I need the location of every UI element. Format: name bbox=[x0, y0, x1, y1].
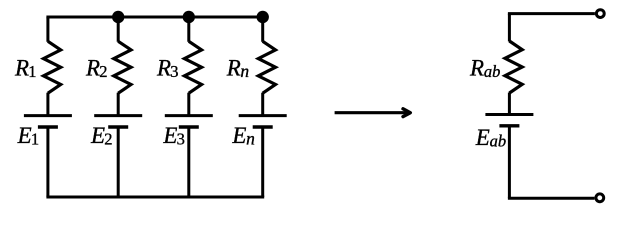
wire branch 4 resistor to battery bbox=[261, 93, 264, 116]
wire branch 1 bottom vertical bbox=[46, 127, 49, 197]
resistor R1 bbox=[44, 41, 61, 93]
wire bottom rail (node b bus) bbox=[46, 196, 264, 199]
node junction dot 4 bbox=[257, 11, 269, 23]
wire equivalent branch top vertical bbox=[508, 14, 511, 42]
battery E3 long plate (+) bbox=[165, 114, 213, 117]
battery E1 short plate (-) bbox=[38, 125, 58, 128]
wire equivalent top lead bbox=[508, 12, 595, 15]
wire branch 3 resistor to battery bbox=[187, 93, 190, 116]
svg-text:E1: E1 bbox=[17, 123, 40, 149]
resistor R2 bbox=[114, 41, 131, 93]
terminal a (open circle) bbox=[596, 10, 604, 18]
wire branch 1 resistor to battery bbox=[46, 93, 49, 116]
svg-text:Rn: Rn bbox=[226, 55, 250, 81]
wire equivalent resistor to battery bbox=[508, 93, 511, 115]
wire branch 1 top vertical bbox=[46, 17, 49, 42]
battery E2 short plate (-) bbox=[108, 125, 128, 128]
battery En short plate (-) bbox=[253, 125, 273, 128]
svg-text:En: En bbox=[231, 123, 255, 149]
battery E2 long plate (+) bbox=[94, 114, 142, 117]
battery Eab short plate (-) bbox=[499, 124, 519, 127]
node junction dot 2 bbox=[112, 11, 124, 23]
wire branch 2 resistor to battery bbox=[117, 93, 120, 116]
svg-text:R3: R3 bbox=[156, 55, 179, 81]
wire top rail (node a bus) bbox=[46, 16, 262, 19]
wire equivalent branch bottom vertical bbox=[508, 126, 511, 199]
wire branch 3 top vertical bbox=[187, 17, 190, 42]
battery E1 long plate (+) bbox=[24, 114, 72, 117]
battery E3 short plate (-) bbox=[179, 125, 199, 128]
terminal b (open circle) bbox=[596, 194, 604, 202]
wire branch 4 bottom vertical bbox=[261, 127, 264, 197]
resistor R3 bbox=[184, 41, 201, 93]
resistor Rn bbox=[258, 41, 275, 93]
resistor Rab bbox=[505, 41, 522, 93]
battery En long plate (+) bbox=[239, 114, 287, 117]
svg-text:Rab: Rab bbox=[469, 55, 500, 81]
svg-text:R2: R2 bbox=[85, 55, 108, 81]
arrow implication left-to-right bbox=[335, 109, 411, 117]
wire branch 3 bottom vertical bbox=[187, 127, 190, 197]
battery Eab long plate (+) bbox=[485, 113, 533, 116]
wire equivalent bottom lead bbox=[508, 197, 595, 200]
svg-text:Eab: Eab bbox=[475, 125, 506, 151]
wire branch 4 top vertical bbox=[261, 17, 264, 42]
node junction dot 3 bbox=[183, 11, 195, 23]
svg-text:R1: R1 bbox=[14, 55, 37, 81]
wire branch 2 top vertical bbox=[117, 17, 120, 42]
wire branch 2 bottom vertical bbox=[117, 127, 120, 197]
